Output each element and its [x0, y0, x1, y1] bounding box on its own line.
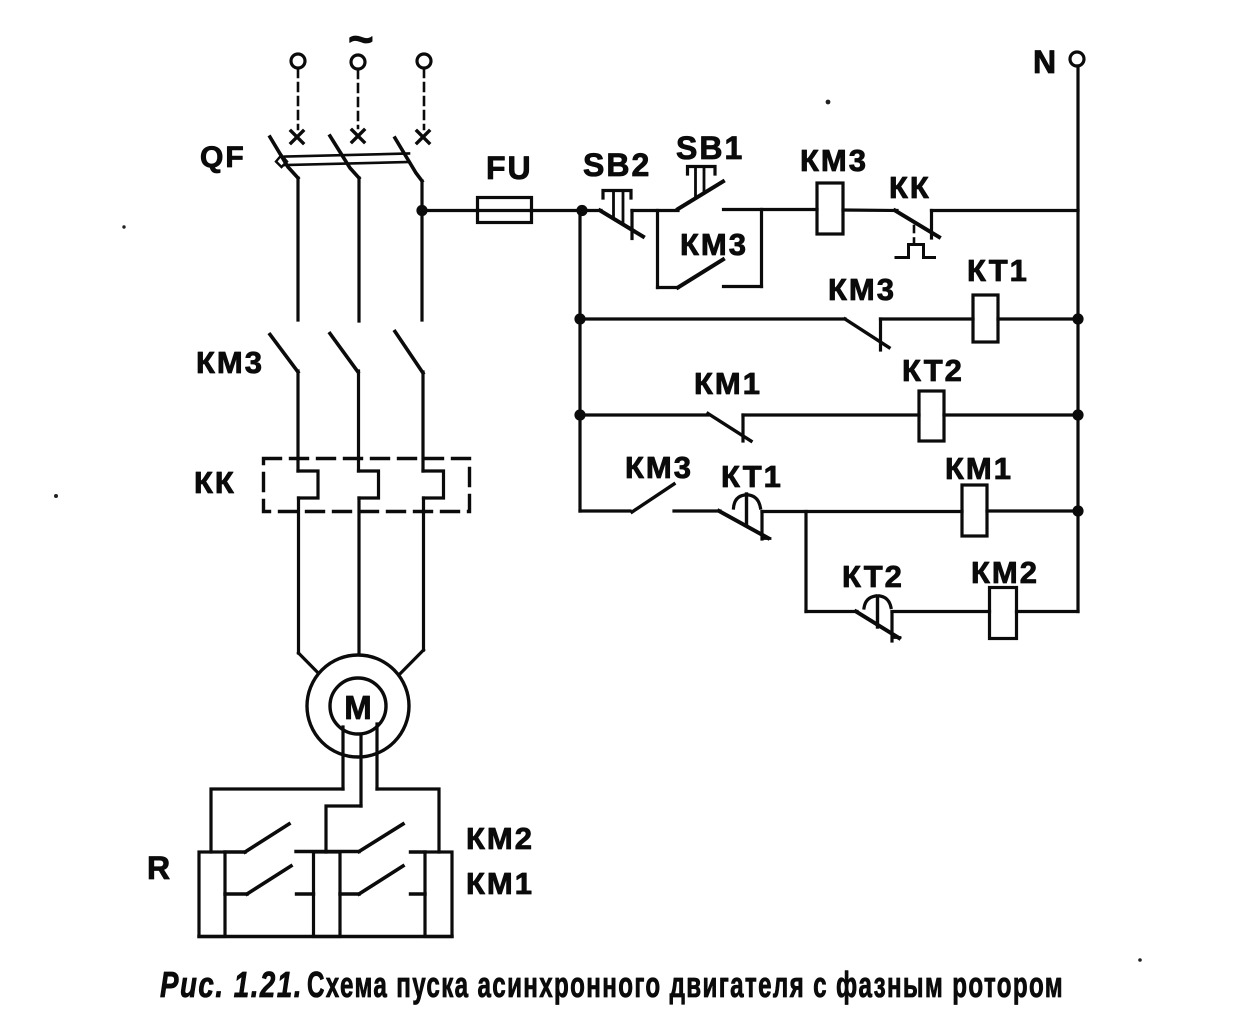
coil KM1 — [962, 485, 987, 536]
svg-text:~: ~ — [348, 15, 376, 64]
KM3 main contact pole 3 — [395, 332, 423, 374]
KM3 main contact pole 2 — [330, 334, 358, 373]
KT1 delayed contact blade — [719, 511, 768, 538]
scan speck 2 — [826, 100, 831, 105]
motor M inner circle — [330, 678, 386, 734]
breaker QF pole 3 blade — [395, 138, 422, 181]
KK thermal relay dashed box — [264, 459, 470, 512]
KT2 contact foot — [892, 636, 900, 639]
wire L1 QF to KM3 — [296, 178, 299, 320]
wire pole1 to heater — [296, 371, 299, 471]
wire pole1 to motor — [297, 498, 300, 653]
KM1 rotor contact blade 1 — [247, 866, 291, 894]
KM3 aux contact blade row2 — [845, 319, 889, 348]
fuse FU — [478, 209, 531, 212]
KT2 delayed contact blade — [856, 612, 899, 639]
svg-text:SB2: SB2 — [583, 147, 651, 183]
breaker QF pole 1 blade — [270, 137, 298, 178]
holding branch bottom right — [724, 285, 762, 288]
wire SB2 to SB1 — [632, 209, 678, 212]
wire pole2 to motor — [357, 498, 360, 658]
scan speck 1 — [54, 494, 58, 498]
row2 wire mid — [881, 317, 974, 320]
svg-text:КТ2: КТ2 — [902, 353, 964, 388]
holding branch bottom left — [658, 286, 679, 289]
phase terminal L2 — [351, 55, 365, 69]
row2 wire right — [998, 317, 1078, 320]
wire L3 QF to KM3 — [420, 181, 423, 320]
phase terminal L3 — [417, 54, 431, 68]
KT2 delay stem — [876, 596, 879, 627]
svg-text:Схема пуска асинхронного двига: Схема пуска асинхронного двигателя с фаз… — [307, 964, 1064, 1005]
terminal N — [1070, 52, 1084, 66]
svg-text:КМ3: КМ3 — [828, 272, 896, 307]
row1 wire to right rail — [932, 209, 1079, 212]
KK heater element pole 3 — [423, 471, 444, 498]
wire L2 QF to KM3 — [357, 178, 360, 321]
KT1 delay stem — [745, 494, 748, 524]
wire KM3 coil to KK — [843, 208, 897, 212]
svg-text:КМ3: КМ3 — [800, 143, 868, 178]
KM3 main contact pole 1 — [270, 335, 298, 373]
rotor bus left — [211, 789, 343, 852]
junction node after FU — [576, 205, 587, 216]
rotor bus right — [377, 789, 439, 852]
KM1 rotor contact stub 1R — [297, 892, 314, 895]
right rail node row4 — [1072, 505, 1083, 516]
wire to fuse FU — [422, 209, 478, 212]
row4 wire mid1 — [674, 509, 720, 512]
KM1 rotor contact stub 1L — [225, 892, 247, 895]
svg-text:FU: FU — [486, 150, 533, 186]
svg-text:R: R — [147, 850, 172, 886]
resistor R section 3 — [425, 852, 452, 937]
wire junction to SB2 — [582, 209, 601, 212]
button SB1 blade — [678, 182, 723, 210]
row4 left corner wire — [580, 509, 630, 512]
trip cross L2 — [352, 130, 364, 142]
QF linkage bar — [285, 154, 409, 157]
button SB2 blade — [600, 211, 643, 237]
SB2 fixed riser — [630, 211, 633, 239]
svg-text:М: М — [344, 689, 374, 726]
KM1 rotor contact stub 2L — [340, 892, 359, 895]
row5 drop wire — [804, 512, 807, 612]
scan speck 4 — [122, 225, 125, 228]
KM1 rotor contact stub 2R — [411, 892, 426, 895]
svg-text:КМ3: КМ3 — [680, 227, 748, 262]
KT1 delay arc left — [734, 495, 745, 508]
KK contact blade — [895, 211, 939, 238]
svg-text:КМ3: КМ3 — [196, 345, 264, 380]
KK link dash — [913, 226, 916, 232]
holding branch right rise — [760, 210, 763, 287]
row5 wire left — [806, 610, 857, 613]
svg-text:КТ1: КТ1 — [967, 253, 1029, 288]
rotor bottom bus — [199, 935, 452, 938]
row3 wire right — [944, 413, 1078, 416]
KM3 aux contact blade row4 — [632, 484, 674, 512]
svg-text:КМ2: КМ2 — [971, 555, 1039, 590]
right rail node row2 — [1072, 313, 1083, 324]
svg-text:КМ1: КМ1 — [945, 451, 1013, 486]
breaker QF pole 2 blade — [330, 136, 359, 178]
rotor bus middle step — [326, 806, 361, 852]
KM2 rotor contact stub 1L — [225, 850, 245, 853]
dashed trip lead L2 — [357, 70, 360, 128]
coil KT2 — [919, 391, 944, 441]
row3 wire mid — [743, 413, 919, 416]
KM2 rotor contact stub 1R across box2 top — [296, 850, 359, 853]
right rail — [1076, 66, 1079, 612]
svg-text:КТ2: КТ2 — [842, 559, 904, 594]
funnel wire left into motor — [299, 653, 333, 687]
funnel wire right into motor — [388, 650, 424, 686]
row3 wire left — [580, 413, 708, 416]
trip cross L3 — [417, 131, 429, 143]
KT1 contact riser — [760, 512, 763, 540]
KM2 rotor contact blade 1 — [245, 824, 289, 852]
KM2 rotor contact blade 2 — [359, 824, 403, 852]
svg-text:Рис. 1.21.: Рис. 1.21. — [160, 964, 303, 1005]
rotor lead right — [375, 724, 378, 789]
KT1 delay arc right — [749, 495, 761, 508]
dashed trip lead L3 — [423, 69, 426, 129]
KT2 delay arc right — [880, 596, 891, 608]
trip cross L1 — [291, 131, 303, 143]
KM1 rotor contact blade 2 — [359, 866, 403, 894]
KM3 aux riser row2 — [879, 319, 882, 350]
dashed trip lead L1 — [297, 69, 300, 129]
left control rail — [578, 211, 581, 512]
svg-text:КМ3: КМ3 — [625, 450, 693, 485]
KM1 aux contact blade row3 — [708, 414, 751, 442]
coil KM3 — [817, 183, 843, 234]
KK heater element pole 2 — [359, 471, 379, 498]
wire pole3 to heater — [421, 372, 424, 471]
SB1 actuator — [688, 167, 716, 175]
KM2 rotor contact stub 2R — [411, 850, 426, 853]
rotor lead left — [341, 727, 344, 789]
rotor lead middle — [359, 734, 362, 806]
resistor R section 1 — [199, 852, 225, 937]
right rail node row3 — [1072, 409, 1083, 420]
left rail node row3 — [574, 409, 585, 420]
wire pole2 to heater — [357, 371, 360, 471]
wire pole3 to motor — [422, 498, 425, 650]
KT1 contact foot — [762, 537, 770, 540]
svg-text:КМ1: КМ1 — [694, 366, 762, 401]
wire FU to junction — [531, 209, 582, 212]
svg-text:КМ2: КМ2 — [466, 821, 534, 856]
motor M outer circle — [307, 655, 409, 757]
row2 wire left — [580, 317, 845, 320]
svg-text:N: N — [1033, 44, 1058, 80]
svg-text:SB1: SB1 — [676, 130, 744, 166]
KT2 delay arc left — [864, 596, 876, 608]
svg-text:КМ1: КМ1 — [466, 866, 534, 901]
svg-text:QF: QF — [200, 141, 246, 174]
svg-text:КК: КК — [889, 170, 931, 205]
svg-text:КК: КК — [194, 465, 236, 500]
KM3 holding contact blade — [678, 260, 723, 288]
scan speck 3 — [1138, 958, 1142, 962]
KM3 holding branch left drop — [656, 211, 659, 288]
svg-text:КТ1: КТ1 — [721, 459, 783, 494]
KT2 contact riser — [890, 612, 893, 641]
row4 wire mid2 — [762, 510, 962, 513]
left rail node row2 — [574, 313, 585, 324]
row5 wire right — [1017, 610, 1079, 613]
KM1 aux riser row3 — [741, 415, 744, 441]
row5 wire mid — [892, 610, 990, 613]
resistor R section 2 — [314, 852, 341, 937]
QF linkage handle diamond — [276, 155, 287, 167]
coil KT1 — [973, 295, 998, 342]
KK heater element pole 1 — [298, 471, 318, 498]
row4 wire right — [987, 509, 1078, 512]
KK contact riser — [930, 211, 933, 239]
coil KM2 — [990, 588, 1017, 639]
phase terminal L1 — [291, 54, 305, 68]
junction node control tap — [416, 205, 427, 216]
wire SB1 to KM3 coil — [724, 208, 818, 211]
KK thermal hump — [896, 245, 935, 258]
SB2 actuator — [603, 191, 631, 199]
